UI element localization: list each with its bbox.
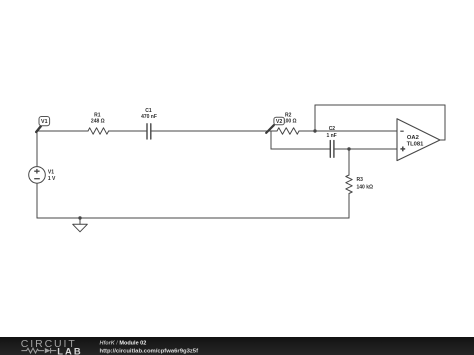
svg-text:248 Ω: 248 Ω — [91, 119, 105, 125]
svg-text:http://circuitlab.com/cpfwa6r9: http://circuitlab.com/cpfwa6r9g3z5f — [100, 348, 199, 354]
svg-text:1 V: 1 V — [48, 176, 56, 182]
svg-text:C2: C2 — [329, 126, 336, 132]
svg-text:R1: R1 — [94, 112, 101, 118]
svg-text:1 nF: 1 nF — [326, 133, 336, 139]
svg-text:V1: V1 — [48, 170, 54, 176]
svg-text:140 kΩ: 140 kΩ — [357, 185, 374, 191]
svg-text:HforK / Module 02: HforK / Module 02 — [100, 340, 147, 346]
svg-text:C1: C1 — [145, 108, 152, 114]
svg-text:R3: R3 — [357, 177, 364, 183]
svg-text:LAB: LAB — [57, 345, 83, 355]
svg-text:V2: V2 — [276, 119, 283, 125]
svg-text:V1: V1 — [41, 119, 48, 125]
svg-text:100 Ω: 100 Ω — [283, 119, 297, 125]
svg-text:TL081: TL081 — [407, 142, 425, 148]
svg-text:R2: R2 — [285, 112, 292, 118]
svg-text:470 nF: 470 nF — [141, 114, 157, 120]
svg-text:OA2: OA2 — [407, 135, 419, 141]
